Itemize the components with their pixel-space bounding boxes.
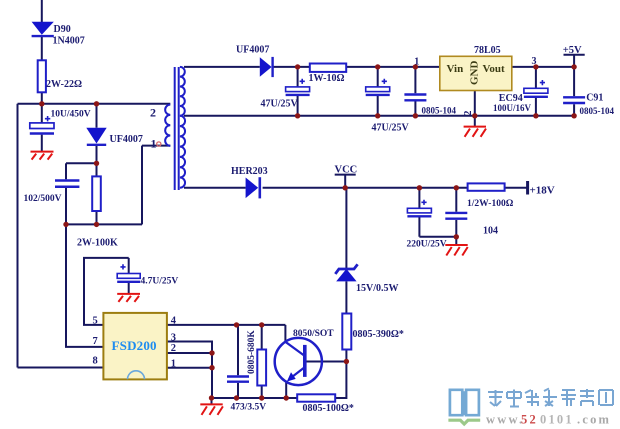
svg-text:+18V: +18V [530, 184, 555, 196]
svg-text:GND: GND [469, 61, 481, 86]
capacitor 0805-104 a [404, 95, 426, 101]
wire resistor 0805-390 to node C [345, 350, 347, 362]
capacitor 220U/25V [407, 200, 431, 217]
svg-text:D90: D90 [54, 24, 71, 35]
svg-text:4.7U/25V: 4.7U/25V [141, 277, 179, 287]
wire D90 to R 2W-22 [41, 37, 43, 61]
wire rail to FSD200 pin8 [18, 367, 104, 369]
IC FSD200 [103, 313, 166, 380]
svg-text:78L05: 78L05 [474, 45, 501, 56]
wire transistor collector to node C [306, 361, 346, 363]
capacitor 102/500V [55, 181, 79, 187]
resistor 1/2W-100 [468, 183, 505, 190]
svg-text:FSD200: FSD200 [112, 338, 157, 353]
wire 78L05 GND pin to rail [474, 90, 476, 115]
svg-text:1: 1 [171, 358, 176, 369]
wire cap C91 leads [573, 67, 575, 116]
wire transistor emitter down [285, 381, 287, 398]
wire secondary return rail [184, 115, 574, 117]
svg-text:0101: 0101 [540, 413, 574, 427]
svg-text:VCC: VCC [335, 165, 358, 176]
wire cap 473/3.5V leads [237, 325, 239, 398]
wire HER203 to resistor 1/2W-100 [263, 187, 468, 189]
diode HER203 [246, 177, 260, 198]
svg-text:47U/25V: 47U/25V [372, 123, 410, 134]
wire node B to resistor 2W-100K [96, 163, 98, 176]
junction dots VCC rail [343, 185, 459, 239]
wire node B horizontal [66, 162, 97, 164]
svg-text:0805-104: 0805-104 [422, 105, 457, 115]
wire VCC stem [344, 175, 346, 188]
ground below FSD200 bus [200, 404, 223, 415]
transformer T1 secondary winding lower [180, 116, 185, 188]
capacitor C91 [563, 97, 585, 103]
wire node to ground under 104 [455, 237, 457, 245]
watermark book logo [450, 390, 479, 415]
svg-text:10U/450V: 10U/450V [51, 110, 91, 120]
svg-text:1N4007: 1N4007 [53, 35, 85, 46]
wire node C down and left to resistor 0805-100 [335, 362, 346, 399]
svg-text:0805-390Ω*: 0805-390Ω* [353, 329, 404, 340]
power node VCC bar [335, 174, 356, 176]
wire FSD200 pin5 loop [84, 258, 129, 325]
wire node B to cap 102/500V [65, 163, 67, 179]
wire top-left rail to transformer pin2 [18, 103, 171, 105]
wire FSD200 pin4 rail [167, 324, 286, 326]
svg-text:0805-680K: 0805-680K [247, 330, 257, 374]
resistor 0805-680K [257, 350, 266, 386]
wire secondary top rail to diode UF4007 [184, 66, 260, 68]
svg-text:1: 1 [151, 137, 157, 151]
wire diode UF4007 to 78L05 Vin [274, 66, 440, 68]
diode D90 [32, 22, 54, 36]
junction dots secondary return rail [295, 113, 577, 118]
capacitor 473/3.5V [227, 377, 249, 382]
svg-text:2: 2 [171, 343, 176, 354]
svg-text:4: 4 [171, 315, 177, 326]
watermark book base [448, 420, 480, 424]
svg-text:3: 3 [171, 332, 176, 343]
watermark url text [486, 413, 611, 427]
wire node A to cap 10U/450V [41, 104, 43, 123]
wire cap 4.7U/25V to ground [128, 283, 130, 294]
power node +18V tick [526, 181, 529, 195]
capacitor 10U/450V [30, 116, 54, 134]
wire cap 10U/450V to ground [41, 135, 43, 151]
wire FSD200 pin3 to vertical bus [167, 342, 212, 399]
wire zener to resistor 0805-390 [345, 281, 347, 313]
wire rail to ground under 78L05 [474, 116, 476, 126]
ground below 104 [445, 245, 467, 256]
svg-text:0805-104: 0805-104 [580, 106, 615, 116]
regulator U 78L05 [440, 56, 512, 90]
zener diode 15V/0.5W [335, 264, 357, 281]
resistor 1W-10 [310, 64, 346, 72]
svg-text:52: 52 [521, 413, 538, 427]
wire +5V stem [573, 55, 575, 67]
ground below 78L05 [464, 127, 486, 137]
wire FSD200 pin1 [167, 367, 212, 369]
svg-text:UF4007: UF4007 [110, 134, 143, 145]
svg-text:2: 2 [463, 111, 474, 116]
wire AC input to D90 [41, 0, 43, 22]
wire R 2W-22 to node A [41, 92, 43, 104]
watermark chinese glyphs [488, 389, 613, 407]
svg-text:8050/SOT: 8050/SOT [293, 329, 334, 339]
wire bottom ground rail [211, 397, 297, 399]
resistor 2W-22 [38, 60, 46, 92]
wire cap 220U/25V leads [419, 188, 456, 237]
wire VCC rail to HER203 [184, 187, 246, 189]
svg-text:8: 8 [93, 355, 98, 366]
resistor 0805-100 [297, 394, 335, 401]
wire bottom snubber rail [66, 223, 142, 225]
svg-text:102/500V: 102/500V [24, 194, 62, 204]
wire diode UF4007 left to node B [96, 146, 98, 164]
svg-text:Vout: Vout [483, 63, 506, 75]
svg-text:220U/25V: 220U/25V [407, 239, 447, 249]
svg-text:104: 104 [483, 225, 498, 236]
wire cap 102/500V down [65, 188, 67, 225]
wire resistor 2W-100K down [96, 211, 98, 224]
wire pin4 rail down to transistor base [284, 325, 286, 342]
wire stem to bottom ground [211, 398, 213, 404]
resistor 2W-100K [92, 176, 101, 211]
junction dots FSD200 area [209, 322, 349, 401]
transformer pin1 polarity circle [157, 142, 161, 146]
wire VCC to zener [345, 188, 347, 268]
svg-text:47U/25V: 47U/25V [261, 99, 299, 110]
capacitor 4.7U/25V [117, 264, 140, 282]
svg-text:473/3.5V: 473/3.5V [231, 403, 267, 413]
wire left rail down to pin8 row [17, 104, 19, 368]
svg-text:1/2W-100Ω: 1/2W-100Ω [467, 199, 514, 209]
capacitor 47U/25V a [286, 79, 310, 95]
wire cap 47U/25V b leads [377, 67, 379, 116]
junction dots secondary top rail [295, 64, 577, 69]
transistor Q 8050/SOT [275, 338, 322, 385]
diode UF4007 vertical [86, 128, 106, 145]
wire resistor 0805-680K leads [261, 325, 263, 398]
svg-text:2W-100K: 2W-100K [77, 238, 118, 249]
svg-text:HER203: HER203 [231, 166, 268, 177]
transformer T1 core [175, 67, 179, 190]
wire cap 47U/25V a leads [297, 67, 299, 116]
svg-text:5: 5 [93, 315, 98, 326]
wire rail to FSD200 pin7 [66, 224, 103, 347]
transformer T1 secondary winding upper [180, 67, 185, 116]
svg-text:+5V: +5V [563, 45, 582, 56]
svg-text:15V/0.5W: 15V/0.5W [356, 283, 399, 294]
svg-text:UF4007: UF4007 [236, 44, 269, 55]
wire loop to cap 4.7U/25V [128, 258, 130, 274]
ground below 4.7U/25V [117, 294, 140, 302]
svg-text:.com: .com [577, 413, 611, 427]
svg-text:1W-10Ω: 1W-10Ω [309, 73, 345, 84]
transformer T1 primary winding [165, 105, 170, 146]
svg-text:100U/16V: 100U/16V [493, 103, 532, 113]
svg-text:www.: www. [486, 413, 524, 427]
capacitor EC94 [524, 80, 548, 97]
svg-text:3: 3 [532, 56, 537, 67]
capacitor 47U/25V b [366, 79, 390, 95]
svg-text:1: 1 [414, 57, 419, 68]
wire cap EC94 leads [535, 67, 537, 116]
svg-text:2W-22Ω: 2W-22Ω [46, 79, 82, 90]
wire to transformer pin1 horizontal [142, 145, 170, 147]
wire riser to transformer pin1 [141, 146, 143, 225]
svg-text:Vin: Vin [447, 63, 464, 75]
ground below 10U/450V [31, 152, 54, 160]
wire 78L05 Vout to +5V [512, 66, 574, 68]
capacitor 104 [445, 213, 467, 219]
wire resistor 1/2W-100 to +18V [505, 187, 528, 189]
svg-text:C91: C91 [586, 92, 603, 103]
junction node A dots [39, 101, 99, 227]
svg-text:0805-100Ω*: 0805-100Ω* [303, 403, 354, 414]
diode UF4007 top [260, 57, 273, 77]
wire FSD200 pin2 [167, 352, 212, 354]
svg-text:2: 2 [150, 106, 156, 120]
wire cap 104 leads [455, 188, 457, 237]
svg-text:7: 7 [93, 336, 98, 347]
power node +5V bar [564, 54, 585, 56]
resistor 0805-390 [342, 314, 351, 350]
wire node A rail to diode UF4007 left [96, 104, 98, 128]
wire cap 0805-104 a leads [414, 67, 416, 116]
wire resistor 0805-100 to emitter node [286, 397, 297, 399]
